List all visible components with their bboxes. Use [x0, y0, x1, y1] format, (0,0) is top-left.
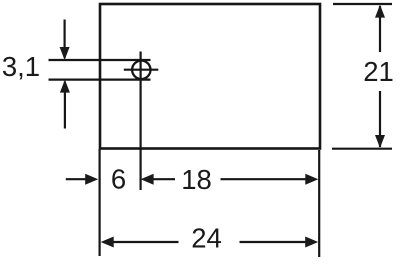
left extension line (bottom)	[98, 149, 100, 256]
dim 6 outside arrow shaft	[66, 178, 86, 180]
dim 3,1 upper arrow shaft	[63, 20, 65, 59]
svg-text:3,1: 3,1	[2, 51, 40, 82]
arrowhead dim 3,1 up	[60, 80, 70, 93]
extension line bottom of hole	[49, 78, 151, 80]
arrowhead dim 3,1 down	[60, 47, 70, 60]
dim 3,1 lower arrow shaft	[64, 82, 66, 129]
arrowhead dim 6 right	[85, 174, 98, 185]
arrowhead dim 21 up	[375, 5, 385, 18]
svg-text:6: 6	[111, 164, 126, 195]
extension line top of hole	[49, 59, 151, 61]
hole vertical centerline	[140, 52, 142, 191]
plate outline rectangle 24 x 21	[100, 4, 320, 149]
dim 21 line upper segment	[379, 6, 381, 52]
hole circle 3,1 dia	[132, 61, 150, 79]
hole horizontal centerline	[124, 69, 159, 71]
svg-text:21: 21	[363, 56, 394, 87]
arrowhead dim 18 right	[305, 174, 318, 185]
arrowhead dim 21 down	[375, 135, 385, 148]
dim 24 right shaft	[240, 241, 307, 243]
right extension line (bottom)	[318, 150, 320, 257]
dim 21 line lower segment	[379, 91, 381, 147]
dim 18 right shaft	[221, 178, 308, 180]
dim 24 left shaft	[112, 241, 179, 243]
arrowhead dim 24 right	[305, 237, 318, 248]
dim 18 left shaft	[152, 178, 175, 180]
arrowhead dim 18 left	[141, 174, 154, 185]
arrowhead dim 24 left	[101, 237, 114, 248]
dim 21 top extension line	[333, 3, 392, 5]
svg-text:24: 24	[191, 223, 222, 254]
svg-text:18: 18	[181, 164, 212, 195]
dim 21 bottom extension line	[332, 148, 392, 150]
